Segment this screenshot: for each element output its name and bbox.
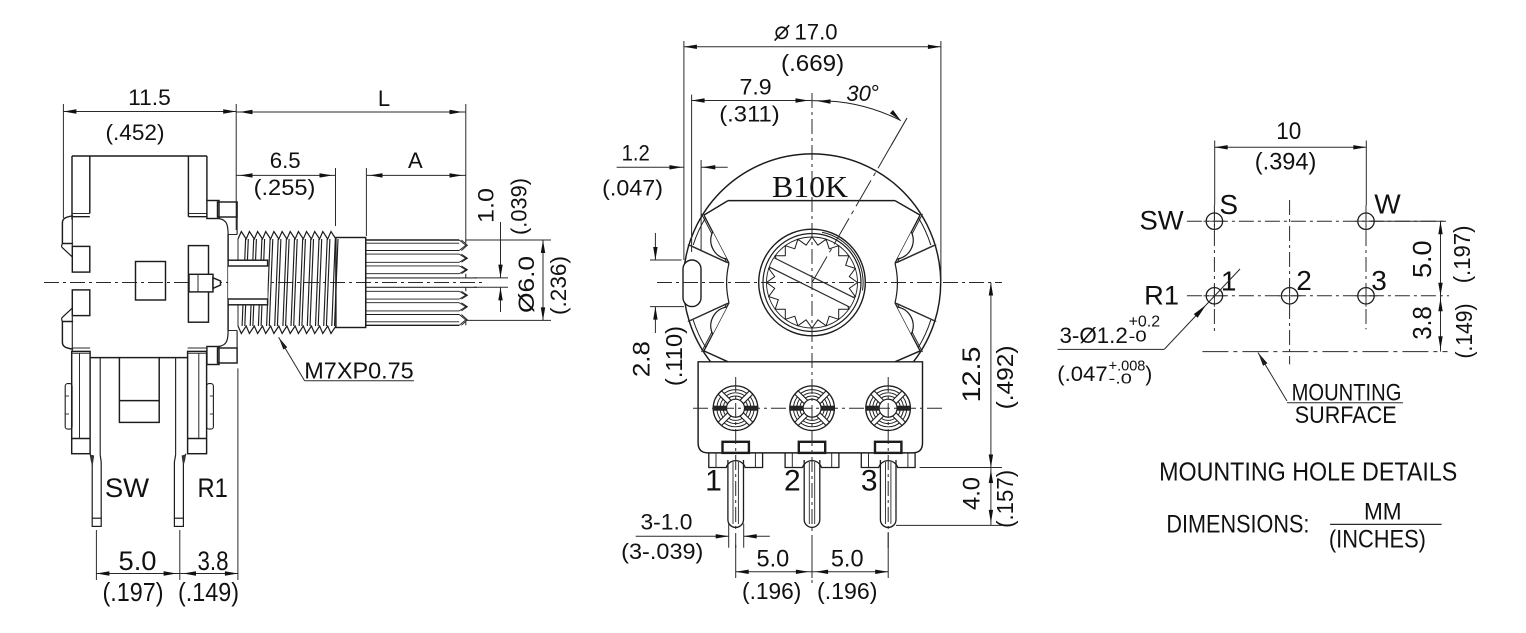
30 degree dimension arc bbox=[813, 101, 901, 121]
dim dia 6.0 (.236) shaft diameter, rotated bbox=[466, 239, 551, 241]
dim L shaft length bbox=[465, 104, 467, 240]
svg-text:3.8: 3.8 bbox=[198, 546, 229, 576]
svg-text:B10K: B10K bbox=[772, 169, 849, 204]
svg-text:(.669): (.669) bbox=[781, 50, 844, 76]
potentiometer body (side view) bbox=[72, 155, 207, 157]
svg-text:2: 2 bbox=[1296, 265, 1312, 296]
right leg clip bbox=[207, 384, 214, 430]
dim dia 17.0 (.669) bbox=[683, 41, 685, 260]
svg-text:5.0: 5.0 bbox=[757, 546, 790, 573]
svg-text:R1: R1 bbox=[198, 473, 228, 503]
cover crimp tab bbox=[895, 303, 934, 321]
svg-text:(INCHES): (INCHES) bbox=[1329, 525, 1426, 553]
left clip tab lower bbox=[62, 322, 73, 350]
30 degree index line bbox=[812, 146, 891, 283]
shaft slot lines bbox=[366, 277, 477, 279]
svg-text:(.452): (.452) bbox=[106, 120, 165, 145]
pin crimp block bbox=[875, 442, 901, 453]
svg-text:3.8: 3.8 bbox=[1407, 306, 1437, 340]
rim double arcs at crimp tabs bbox=[693, 320, 706, 348]
svg-text:10: 10 bbox=[1276, 118, 1301, 145]
cover D-notch bbox=[897, 232, 913, 259]
left side block lower bbox=[72, 290, 90, 316]
svg-text:(.311): (.311) bbox=[719, 102, 780, 127]
cover D-notch bbox=[897, 307, 913, 334]
svg-text:(.149): (.149) bbox=[178, 577, 239, 607]
body front face bbox=[227, 235, 229, 261]
svg-text:S: S bbox=[1219, 189, 1238, 220]
pin shoulder bbox=[861, 453, 915, 468]
svg-text:A: A bbox=[408, 148, 423, 173]
svg-text:SW: SW bbox=[1140, 206, 1185, 236]
svg-text:DIMENSIONS:: DIMENSIONS: bbox=[1166, 510, 1309, 538]
vertical centerline middle view bbox=[811, 93, 813, 585]
svg-text:(.197): (.197) bbox=[103, 577, 164, 607]
rivet (crimped pin head) bbox=[790, 386, 835, 431]
pin bbox=[728, 460, 744, 527]
dim 5.0 5.0 (.196)(.196) pin pitch bbox=[735, 545, 737, 578]
svg-text:3: 3 bbox=[1371, 265, 1387, 296]
dim A knurl length bbox=[365, 168, 367, 236]
pin 3 centerline bbox=[887, 377, 889, 548]
svg-text:3-1.0: 3-1.0 bbox=[641, 510, 693, 535]
svg-text:(.255): (.255) bbox=[254, 175, 316, 200]
mounting hole bbox=[1358, 213, 1374, 229]
svg-text:30°: 30° bbox=[846, 81, 879, 106]
pin shoulder bbox=[785, 453, 839, 468]
svg-text:4.0: 4.0 bbox=[959, 477, 986, 510]
right pin (R1) bbox=[175, 358, 177, 455]
dim 10 (.394) bbox=[1214, 141, 1216, 206]
svg-text:1: 1 bbox=[705, 465, 722, 498]
svg-text:(.196): (.196) bbox=[817, 578, 877, 604]
svg-text:Ø6.0: Ø6.0 bbox=[514, 256, 539, 313]
knurl teeth ring bbox=[767, 237, 858, 328]
threaded bushing M7xP0.75 bbox=[242, 239, 338, 326]
svg-text:-0: -0 bbox=[1129, 329, 1147, 346]
svg-text:M7XP0.75: M7XP0.75 bbox=[304, 358, 413, 384]
switch actuator square bbox=[136, 262, 166, 301]
svg-text:3-Ø1.2: 3-Ø1.2 bbox=[1060, 323, 1128, 348]
smooth collar bbox=[336, 238, 366, 328]
grid centerlines bbox=[1187, 220, 1446, 222]
middle bottom tab bbox=[119, 358, 159, 423]
svg-text:1.0: 1.0 bbox=[474, 188, 499, 223]
svg-text:R1: R1 bbox=[1144, 281, 1179, 311]
svg-text:(.196): (.196) bbox=[742, 578, 801, 604]
cover side arcs bbox=[727, 263, 729, 303]
svg-text:SURFACE: SURFACE bbox=[1295, 402, 1397, 429]
left pin (SW) bbox=[99, 358, 101, 455]
cover D-notch bbox=[711, 307, 727, 334]
mounting surface line bbox=[1202, 351, 1447, 353]
svg-text:(.039): (.039) bbox=[507, 178, 532, 235]
label M7XP0.75 with leader bbox=[279, 337, 288, 349]
svg-text:7.9: 7.9 bbox=[740, 75, 772, 100]
svg-text:(.236): (.236) bbox=[546, 256, 571, 315]
left anti-rotation tab (oval) bbox=[683, 260, 701, 307]
cover crimp tab bbox=[895, 245, 934, 263]
pin bbox=[804, 460, 820, 527]
shaft slot (flat screwdriver slot) bbox=[770, 258, 855, 307]
dim 5.0 (.197) right bbox=[1371, 220, 1446, 222]
svg-text:2: 2 bbox=[784, 465, 801, 498]
dim 3-1.0 (3-.039) pin width bbox=[728, 524, 730, 548]
svg-text:L: L bbox=[378, 86, 390, 111]
svg-text:5.0: 5.0 bbox=[1407, 240, 1437, 278]
flange bottom boxes bbox=[207, 347, 219, 365]
flange top boxes bbox=[207, 201, 219, 219]
svg-text:11.5: 11.5 bbox=[128, 85, 171, 110]
left clip tab upper bbox=[62, 216, 73, 244]
svg-text:17.0: 17.0 bbox=[795, 20, 838, 45]
svg-text:(.047): (.047) bbox=[602, 176, 663, 201]
left leg bbox=[72, 351, 90, 453]
base housing bbox=[698, 362, 922, 453]
svg-text:): ) bbox=[1145, 363, 1152, 386]
cover crimp tab bbox=[690, 245, 729, 263]
svg-text:(.149): (.149) bbox=[1451, 303, 1477, 358]
dim 5.0 (.197) and 3.8 (.149) pin spacing bbox=[95, 530, 97, 580]
svg-text:3: 3 bbox=[861, 465, 878, 498]
svg-text:MOUNTING HOLE DETAILS: MOUNTING HOLE DETAILS bbox=[1159, 457, 1457, 487]
dim 1.0 (.039) slot width, rotated bbox=[474, 277, 508, 279]
svg-text:(.492): (.492) bbox=[992, 345, 1018, 409]
metal cover outline bbox=[728, 200, 895, 202]
right inner support block bbox=[188, 246, 208, 323]
left side block upper bbox=[72, 246, 90, 272]
svg-text:SW: SW bbox=[105, 473, 150, 503]
dim 11.5 (.452) body width bbox=[62, 104, 64, 218]
dim 3.8 (.149) right bbox=[1440, 296, 1442, 352]
pin crimp block bbox=[723, 442, 749, 453]
dim 7.9 (.311) bbox=[691, 95, 693, 252]
mounting hole bbox=[1206, 213, 1222, 229]
cover seam arc upper right bbox=[822, 232, 863, 290]
body bottom edge bbox=[90, 357, 119, 359]
left leg clip bbox=[65, 384, 72, 430]
cover crimp tab bbox=[690, 303, 729, 321]
cover D-notch bbox=[711, 232, 727, 259]
outer body circle bbox=[683, 154, 940, 362]
rivet (crimped pin head) bbox=[713, 386, 758, 431]
svg-text:MM: MM bbox=[1364, 499, 1402, 526]
svg-text:(.394): (.394) bbox=[1255, 148, 1317, 175]
pin bbox=[880, 460, 896, 527]
rivet centerline horizontal bbox=[693, 407, 944, 409]
horizontal centerline middle view bbox=[657, 282, 1002, 284]
svg-text:6.5: 6.5 bbox=[270, 148, 301, 173]
dim 4.0 (.157) bbox=[896, 524, 1002, 526]
svg-text:-.0: -.0 bbox=[1109, 371, 1132, 388]
pin shoulder bbox=[709, 453, 763, 468]
svg-text:2.8: 2.8 bbox=[628, 341, 655, 377]
dim 6.5 (.255) thread length bbox=[335, 168, 337, 226]
MOUNTING SURFACE label with leader bbox=[1258, 353, 1267, 366]
svg-text:(.157): (.157) bbox=[992, 470, 1018, 528]
rivet (crimped pin head) bbox=[866, 386, 911, 431]
centerline left view bbox=[44, 282, 484, 284]
dim 1.2 (.047) bbox=[617, 166, 684, 168]
center lug pointing to bushing bbox=[189, 274, 213, 292]
right leg bbox=[188, 351, 207, 453]
mounting hole bbox=[1358, 288, 1374, 304]
svg-text:W: W bbox=[1374, 189, 1401, 220]
svg-text:(.197): (.197) bbox=[1449, 225, 1475, 283]
svg-text:1.2: 1.2 bbox=[622, 141, 650, 166]
locating bars over thread bbox=[228, 260, 268, 305]
knurled shaft with slot bbox=[366, 239, 460, 241]
dim 12.5 (.492) bbox=[920, 467, 1002, 469]
pin crimp block bbox=[799, 442, 825, 453]
mounting hole bbox=[1206, 288, 1222, 304]
mounting hole bbox=[1281, 288, 1297, 304]
dim 2.8 (.110) bbox=[650, 259, 682, 261]
svg-text:5.0: 5.0 bbox=[119, 546, 157, 576]
svg-text:(.110): (.110) bbox=[661, 326, 687, 386]
svg-text:5.0: 5.0 bbox=[831, 546, 864, 573]
svg-text:(3-.039): (3-.039) bbox=[621, 539, 703, 564]
svg-text:12.5: 12.5 bbox=[958, 347, 986, 403]
shaft outer rings bbox=[759, 229, 866, 336]
svg-text:(.047: (.047 bbox=[1057, 363, 1107, 386]
pin 1 centerline bbox=[735, 377, 737, 548]
